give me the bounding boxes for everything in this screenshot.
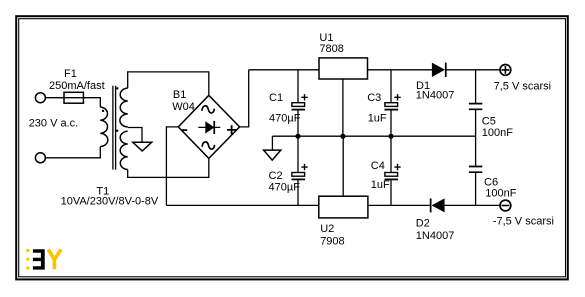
svg-text:-7,5 V scarsi: -7,5 V scarsi <box>493 215 554 227</box>
svg-text:C4: C4 <box>371 160 385 172</box>
svg-text:250mA/fast: 250mA/fast <box>49 80 105 92</box>
svg-text:F1: F1 <box>64 68 77 80</box>
svg-text:D2: D2 <box>416 218 430 230</box>
svg-text:1N4007: 1N4007 <box>416 90 455 102</box>
svg-text:230 V a.c.: 230 V a.c. <box>29 118 79 130</box>
svg-text:1uF: 1uF <box>371 179 390 191</box>
svg-text:470µF: 470µF <box>269 112 301 124</box>
svg-text:C1: C1 <box>269 92 283 104</box>
svg-text:W04: W04 <box>172 101 195 113</box>
svg-text:470µF: 470µF <box>269 182 301 194</box>
svg-text:1uF: 1uF <box>368 113 387 125</box>
svg-text:10VA/230V/8V-0-8V: 10VA/230V/8V-0-8V <box>61 196 159 208</box>
svg-text:7908: 7908 <box>320 235 344 247</box>
svg-text:7808: 7808 <box>319 43 343 55</box>
svg-text:100nF: 100nF <box>485 187 516 199</box>
svg-text:C5: C5 <box>482 115 496 127</box>
svg-text:100nF: 100nF <box>482 127 513 139</box>
svg-text:1N4007: 1N4007 <box>416 230 455 242</box>
svg-text:U2: U2 <box>320 223 334 235</box>
svg-text:7,5 V scarsi: 7,5 V scarsi <box>494 80 551 92</box>
svg-text:B1: B1 <box>173 89 186 101</box>
svg-text:C2: C2 <box>269 170 283 182</box>
svg-text:C3: C3 <box>367 92 381 104</box>
